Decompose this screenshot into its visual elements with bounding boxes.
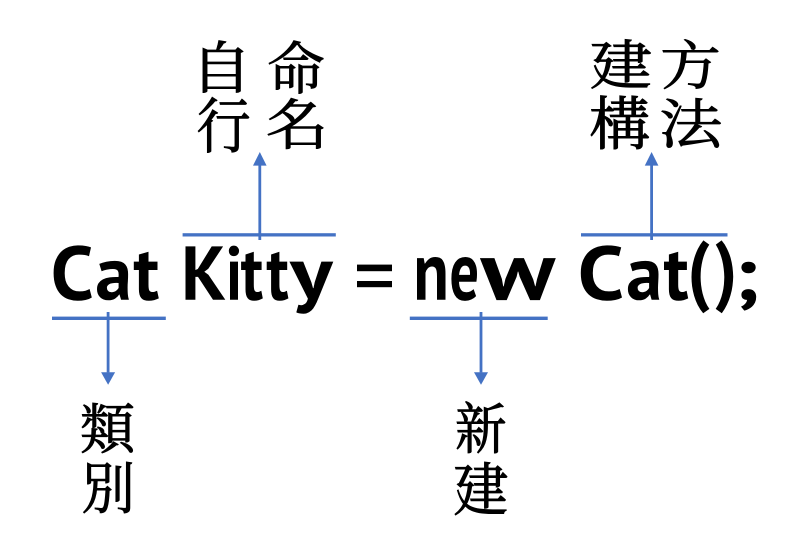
code Cat(); constructor call — [581, 240, 756, 313]
label char 建 at 455.0,462.0 — [455, 462, 507, 515]
label char 別 at 83.5,462.0 — [84, 462, 132, 513]
code word Cat (class type) — [54, 245, 159, 300]
label char 建 at 591.6,39.4 — [592, 39, 651, 88]
underline under new — [410, 317, 548, 320]
label char 自 at 203.0,40.6 — [203, 41, 243, 93]
label char 類 at 82.0,403.0 — [82, 403, 133, 453]
up arrow from Kitty overline to 自行命名 — [258, 165, 261, 240]
equals sign — [357, 265, 392, 272]
label char 命 at 269.1,40.6 — [269, 41, 323, 94]
down arrow from Cat to 類別 — [107, 312, 110, 372]
down arrow from new to 新建 — [480, 312, 483, 372]
label char 法 at 661.8,98.2 — [662, 98, 721, 147]
code word new — [417, 257, 556, 301]
code word Kitty (variable name) — [186, 246, 334, 314]
label char 行 at 198.2,97.2 — [198, 97, 249, 152]
overline above Cat() — [581, 233, 728, 236]
label char 方 at 662.9,39.4 — [663, 39, 718, 88]
label char 新 at 457.0,401.5 — [457, 402, 505, 454]
label char 名 at 268.0,98.2 — [268, 98, 323, 149]
overline above Kitty — [183, 233, 336, 236]
label char 構 at 590.9,95.6 — [591, 96, 649, 150]
up arrow from Cat() overline to 建構方法 — [650, 165, 653, 240]
underline under Cat — [52, 317, 166, 320]
